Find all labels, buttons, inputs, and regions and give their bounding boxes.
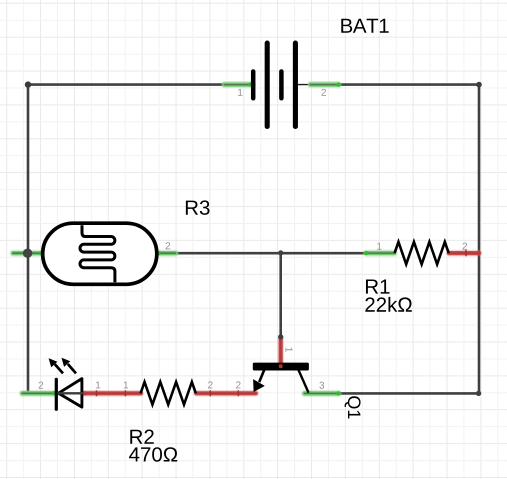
label BAT1 [341,19,388,33]
wire LED anode through triangle [58,392,84,394]
label Q1 rotated [345,396,361,418]
label R3 [186,200,210,215]
wire top rail left [28,83,252,86]
value label 22k ohm [365,297,411,312]
value label 470 ohm [129,447,177,462]
wire battery pin2 stub [297,84,311,86]
wire left vertical [27,85,30,394]
green pin BAT1 pin2 [311,82,341,86]
green pin R3 pin1 [13,251,43,255]
label R2 [130,429,153,443]
pin label Q1 3 [319,382,324,389]
pin label R1 2 [463,243,468,250]
red pin Q1 pin1 [278,334,283,363]
resistor R1 [395,242,449,264]
green pin Q1 pin3 [305,391,341,395]
junction node left [23,249,32,258]
junction node bottom right corner [476,391,481,396]
pin label LED 1 [96,382,100,389]
pin label R3 2 [166,242,171,249]
transistor Q1 collector leg [299,370,309,393]
junction node middle [278,250,283,255]
transistor Q1 base bar [253,363,309,371]
junction node top right corner [476,82,482,88]
transistor Q1 emitter leg with arrow [253,370,265,392]
label R1 [366,280,390,294]
wire middle vertical to Q1 [279,253,282,338]
LED light arrow A [49,358,63,373]
green pin LED pin2 [22,391,56,395]
pin label R2 2 [208,381,213,388]
pin label Q1 2 [236,381,241,388]
red wire LED to R2 [83,390,141,396]
photoresistor R3 serpentine [80,225,115,282]
green pin BAT1 pin1 [224,82,253,86]
green pin R3 pin2 [156,251,175,255]
pin label BAT1 2 [321,89,326,96]
resistor R2 [141,382,196,405]
green pin R1 pin1 [364,251,394,255]
wire top rail right [310,83,480,86]
LED LED1 cathode bar [55,379,58,409]
pin label BAT1 1 [238,89,242,96]
junction node top left corner [25,81,31,87]
pin label LED 2 [39,382,44,389]
battery BAT1 [253,43,295,127]
LED light arrow B [62,358,77,374]
pin label R2 1 [124,382,128,389]
red pin R1 pin2 [449,250,481,256]
wire right vertical [478,85,481,394]
LED LED1 triangle [59,379,82,408]
wire middle row [158,252,394,255]
pin label R1 1 [377,243,381,250]
red wire R2 to Q1 [196,390,256,396]
pin label Q1 1 rotated [286,348,293,352]
wire bottom right [304,392,479,395]
photoresistor R3 body [43,223,157,284]
